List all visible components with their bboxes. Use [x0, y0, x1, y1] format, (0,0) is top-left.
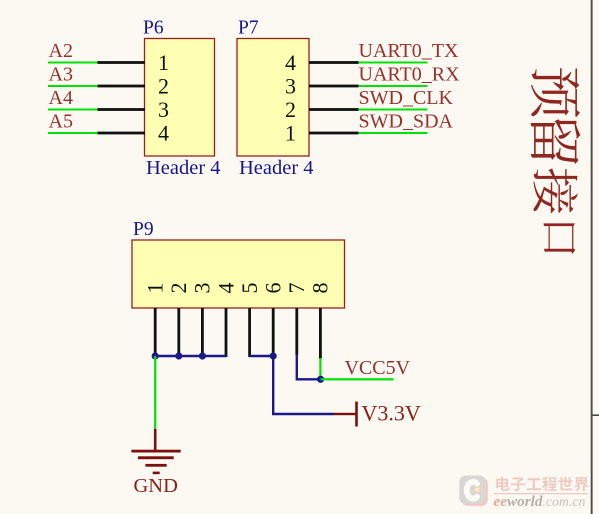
svg-text:P7: P7 — [238, 18, 259, 39]
svg-text:3: 3 — [190, 283, 215, 294]
P6 body — [145, 39, 215, 157]
wire net A4 to P6 pin 3 — [48, 108, 145, 111]
wire pin 6 down to V3.3V — [273, 356, 333, 414]
P7 body — [237, 39, 309, 157]
svg-text:V3.3V: V3.3V — [362, 401, 421, 426]
svg-text:8: 8 — [308, 283, 333, 294]
svg-text:GND: GND — [134, 475, 178, 497]
svg-text:2: 2 — [166, 283, 191, 294]
svg-text:Header 4: Header 4 — [146, 157, 221, 179]
svg-text:P6: P6 — [143, 18, 164, 39]
svg-text:UART0_TX: UART0_TX — [359, 40, 459, 62]
junction dot VCC5V — [317, 376, 324, 383]
svg-text:4: 4 — [213, 283, 238, 294]
svg-text:3: 3 — [158, 97, 169, 122]
wire pin 8 green to VCC node — [319, 358, 321, 379]
svg-text:6: 6 — [261, 283, 286, 294]
connector P7 — [237, 18, 314, 179]
junction dot pin 6 — [270, 352, 277, 359]
svg-text:1: 1 — [285, 120, 296, 145]
wire P9 pin 4 stub — [225, 308, 228, 357]
P9 pin number 6 — [261, 283, 286, 294]
svg-text:Header 4: Header 4 — [239, 157, 314, 179]
svg-text:5: 5 — [237, 283, 262, 294]
wire P9 pin 1 stub — [154, 308, 157, 357]
svg-text:SWD_SDA: SWD_SDA — [359, 111, 454, 133]
wire P9 pin 2 stub — [177, 308, 180, 357]
wire net A2 to P6 pin 1 — [48, 61, 145, 64]
junction dot pin 1 — [152, 352, 159, 359]
P9 body — [132, 240, 345, 308]
svg-text:eeworld.com.cn: eeworld.com.cn — [494, 493, 586, 510]
svg-text:1: 1 — [158, 50, 169, 75]
sheet border right edge — [591, 0, 593, 514]
P9 pin number 3 — [190, 283, 215, 294]
wire VCC5V green — [321, 378, 394, 380]
P9 pin number 5 — [237, 283, 262, 294]
P9 pin number 8 — [308, 283, 333, 294]
wire net SWD_CLK to P7 pin 2 — [309, 108, 428, 111]
wire P9 pin 3 stub — [201, 308, 204, 357]
connector P6 — [143, 18, 221, 179]
svg-text:SWD_CLK: SWD_CLK — [359, 87, 454, 109]
P9 pin number 2 — [166, 283, 191, 294]
junction dot pin 2 — [175, 352, 182, 359]
wire net UART0_RX to P7 pin 3 — [309, 85, 428, 88]
wire P9 pin 8 stub — [319, 308, 322, 359]
junction dot pin 3 — [199, 352, 206, 359]
svg-text:4: 4 — [158, 120, 169, 145]
wire to V3.3V bar — [334, 413, 357, 415]
svg-text:A5: A5 — [49, 111, 73, 133]
svg-text:2: 2 — [158, 73, 169, 98]
wire P9 pin 6 stub — [272, 308, 275, 357]
P9 pin number 7 — [284, 283, 309, 294]
svg-text:3: 3 — [285, 73, 296, 98]
P9 pin number 1 — [143, 283, 168, 294]
connector P9 — [132, 219, 345, 308]
wire bus pins 1-4 GND — [155, 355, 226, 357]
svg-text:A3: A3 — [49, 64, 73, 86]
annotation 预留接口 vertical red text — [531, 68, 581, 254]
power bar V3.3V — [355, 402, 358, 427]
wire P9 pin 5 stub — [248, 308, 251, 357]
ground GND — [131, 429, 180, 497]
wire pin 7 blue to VCC node — [297, 354, 321, 379]
P9 pin number 4 — [213, 283, 238, 294]
svg-text:7: 7 — [284, 283, 309, 294]
svg-text:2: 2 — [285, 97, 296, 122]
svg-text:1: 1 — [143, 283, 168, 294]
svg-text:A4: A4 — [49, 87, 73, 109]
watermark logo eeworld — [459, 476, 488, 506]
watermark text 电子工程世界 — [496, 477, 588, 492]
wire bus pins 5-6 — [250, 355, 274, 357]
wire pin 1 green to GND — [154, 356, 156, 429]
wire net A3 to P6 pin 2 — [48, 85, 145, 88]
svg-text:VCC5V: VCC5V — [345, 357, 411, 379]
watermark divider line — [494, 493, 588, 494]
wire net A5 to P6 pin 4 — [48, 132, 145, 135]
svg-text:P9: P9 — [133, 219, 154, 240]
border tick — [592, 414, 599, 416]
wire net SWD_SDA to P7 pin 1 — [309, 132, 428, 135]
wire net UART0_TX to P7 pin 4 — [309, 61, 428, 64]
svg-text:4: 4 — [285, 50, 296, 75]
svg-text:A2: A2 — [49, 40, 73, 62]
svg-text:UART0_RX: UART0_RX — [359, 64, 461, 86]
wire P9 pin 7 stub — [295, 308, 298, 355]
